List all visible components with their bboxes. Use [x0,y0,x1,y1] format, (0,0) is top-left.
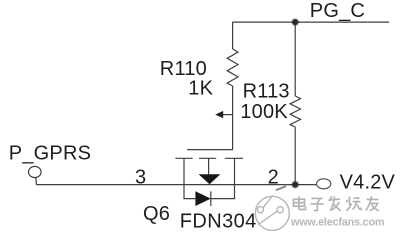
char dian [294,196,306,209]
char fa [329,196,341,211]
svg-text:P_GPRS: P_GPRS [9,142,91,164]
body diode anode triangle [195,191,210,206]
junction dot top [292,19,299,26]
wire gate lead from R110 [232,86,234,150]
resistor R113 [290,96,300,127]
svg-text:V4.2V: V4.2V [340,172,396,194]
svg-text:R110: R110 [160,58,207,80]
pin 1 arrow on gate lead [215,111,232,118]
svg-text:3: 3 [135,166,146,188]
svg-text:Q6: Q6 [143,203,170,225]
wire R110 top lead [232,22,234,49]
svg-text:PG_C: PG_C [310,0,365,22]
junction dot bottom [292,181,299,188]
svg-text:FDN304: FDN304 [180,211,257,233]
body diode cathode bar [210,191,212,206]
char zi [311,198,324,210]
watermark logo circle [255,196,289,231]
transistor Q6 body stem [208,158,210,174]
node P_GPRS terminal [29,166,42,177]
transistor Q6 substrate arrow [199,174,221,184]
resistor R110 [227,49,238,86]
svg-text:www.elecfans.com: www.elecfans.com [290,217,384,229]
transistor Q6 channel caps [175,157,243,159]
wire R113 bottom lead [294,127,296,185]
wire R113 top lead [294,22,296,96]
body diode loop left [184,185,195,199]
char you [366,196,379,211]
node V4.2V terminal [317,179,331,189]
wire terminal stub [35,178,38,185]
char shao [346,197,361,211]
transistor Q6 gate plate [187,149,233,151]
wire top rail to PG_C [232,21,389,23]
transistor Q6 source stem [183,158,185,184]
svg-text:2: 2 [268,167,279,189]
svg-text:R113: R113 [243,81,290,103]
transistor Q6 drain stem [234,158,236,184]
watermark CJK text [294,196,379,211]
body diode loop right [211,185,235,199]
wire main horizontal from P_GPRS to V4.2V [36,184,316,186]
svg-text:100K: 100K [240,101,288,123]
svg-text:1K: 1K [188,78,213,100]
watermark logo flag [276,186,286,190]
